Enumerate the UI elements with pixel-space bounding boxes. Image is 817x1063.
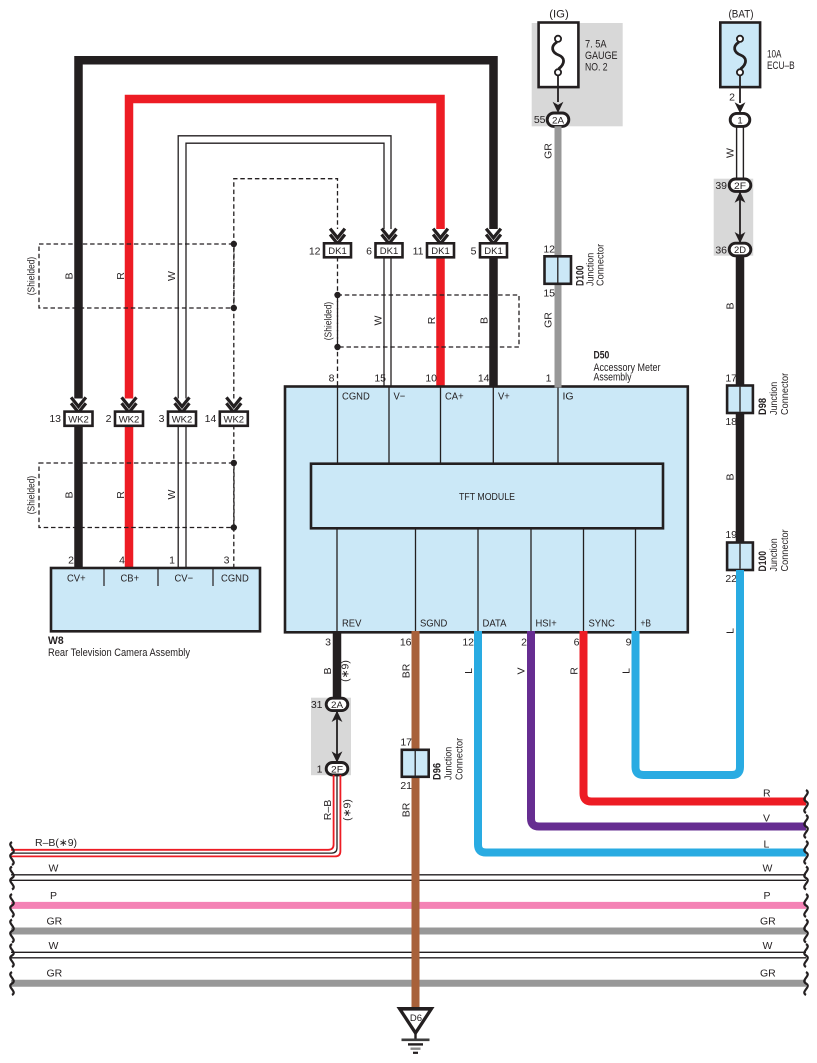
- D50 pin 16: [400, 637, 412, 649]
- squiggle right R: [804, 790, 807, 813]
- svg-text:14: 14: [478, 373, 490, 385]
- svg-text:GR: GR: [543, 143, 555, 159]
- svg-text:4: 4: [119, 555, 125, 567]
- connector 39 2F: [715, 179, 750, 192]
- svg-text:P: P: [50, 890, 57, 902]
- svg-text:1: 1: [169, 555, 175, 567]
- label B REV wire: [322, 667, 334, 674]
- label R-B(*9) horizontal: [35, 837, 77, 849]
- shielded box lower-left: [26, 463, 235, 528]
- label L right: [725, 628, 737, 634]
- chevron arrow into WK2 3: [175, 397, 190, 414]
- svg-text:12: 12: [462, 637, 474, 649]
- label GR upper: [543, 143, 555, 159]
- label W left 1: [49, 863, 59, 875]
- connector WK2 pin 2: [106, 412, 143, 426]
- label P right: [764, 890, 771, 902]
- svg-text:W8: W8: [48, 635, 64, 647]
- connector DK1 pin 6: [366, 243, 402, 257]
- fuse IG 7.5A GAUGE NO.2: [539, 9, 618, 88]
- connector DK1 pin 12: [309, 243, 351, 257]
- wire R from SYNC to right edge: [584, 631, 807, 802]
- label L right: [764, 839, 770, 851]
- svg-text:W: W: [373, 315, 385, 325]
- svg-text:CGND: CGND: [221, 573, 249, 585]
- svg-text:Connector: Connector: [595, 243, 607, 286]
- svg-text:R: R: [426, 316, 438, 324]
- svg-text:W: W: [763, 863, 773, 875]
- svg-text:15: 15: [543, 288, 555, 300]
- svg-text:Rear Television Camera Assembl: Rear Television Camera Assembly: [48, 647, 190, 659]
- wire B from REV to 2A: [333, 631, 342, 698]
- wire GR row 1: [11, 928, 806, 935]
- junction dot: [231, 305, 237, 311]
- W8 pin 1: [169, 555, 175, 567]
- junction dot: [334, 292, 340, 298]
- svg-text:Assembly: Assembly: [594, 371, 632, 383]
- svg-text:(BAT): (BAT): [729, 9, 754, 21]
- label P left: [50, 890, 57, 902]
- arrow down toward 2F: [332, 751, 343, 762]
- shielded box middle: [323, 295, 520, 347]
- svg-text:3: 3: [325, 637, 331, 649]
- wire R below DK1 to D50 CA+: [436, 257, 445, 388]
- svg-text:2D: 2D: [734, 245, 746, 256]
- svg-text:(∗9): (∗9): [340, 660, 352, 682]
- svg-text:BR: BR: [401, 663, 413, 678]
- wire W upper loop (double line): [178, 136, 391, 399]
- wire R upper loop: [129, 99, 441, 399]
- svg-text:6: 6: [366, 246, 372, 258]
- W8 pin 4: [119, 555, 125, 567]
- label GR right 1: [760, 916, 776, 928]
- svg-text:10: 10: [425, 373, 437, 385]
- junction connector D100 right: [725, 529, 791, 585]
- squiggle right GR2: [804, 972, 807, 995]
- chevron arrow into DK1 12: [330, 229, 345, 246]
- svg-text:L: L: [764, 839, 770, 851]
- label W right 1: [763, 863, 773, 875]
- svg-text:REV: REV: [342, 618, 361, 630]
- svg-text:22: 22: [725, 573, 737, 585]
- wire shield drain dashed upper loop: [234, 179, 338, 399]
- chevron arrow into DK1 5: [486, 229, 501, 246]
- svg-text:GAUGE: GAUGE: [585, 50, 618, 62]
- svg-text:+B: +B: [641, 618, 652, 630]
- svg-text:2A: 2A: [552, 115, 565, 126]
- svg-text:(Shielded): (Shielded): [323, 302, 335, 341]
- TFT MODULE box: [311, 464, 663, 529]
- wire B upper loop: [79, 60, 494, 398]
- svg-text:14: 14: [205, 413, 217, 425]
- svg-text:13: 13: [49, 413, 61, 425]
- wire W row 2: [11, 952, 806, 958]
- svg-text:(IG): (IG): [549, 9, 569, 21]
- svg-text:39: 39: [715, 180, 727, 192]
- wire W below DK1 to D50 V-: [384, 257, 391, 388]
- connector 1: [730, 113, 750, 126]
- svg-text:1: 1: [317, 763, 323, 775]
- connector 36 2D: [715, 243, 750, 256]
- squiggle right W2: [804, 944, 807, 967]
- D50 label: [594, 350, 661, 384]
- svg-text:DK1: DK1: [484, 246, 502, 257]
- svg-text:V: V: [763, 813, 770, 825]
- label (*9) REV wire: [340, 660, 352, 682]
- svg-text:Connector: Connector: [779, 529, 791, 572]
- svg-text:V+: V+: [498, 391, 510, 403]
- connector DK1 pin 11: [413, 243, 454, 257]
- svg-text:55: 55: [534, 114, 546, 126]
- wire B from 2D down to D100: [736, 256, 745, 545]
- svg-text:R: R: [763, 788, 771, 800]
- svg-text:W: W: [725, 148, 737, 158]
- squiggle right P: [804, 894, 807, 917]
- label GR right 2: [760, 968, 776, 980]
- svg-text:V: V: [516, 667, 528, 674]
- svg-text:B: B: [64, 491, 76, 498]
- svg-text:HSI+: HSI+: [536, 618, 557, 630]
- svg-text:B: B: [725, 473, 737, 480]
- svg-text:L: L: [621, 668, 633, 674]
- D50 Accessory Meter Assembly box: [285, 387, 688, 633]
- D50 pin 1: [546, 373, 552, 385]
- svg-text:SGND: SGND: [420, 618, 448, 630]
- label BR lower: [401, 802, 413, 817]
- shielded box upper-left: [26, 244, 235, 308]
- gray panel behind 2F/2D connectors: [714, 179, 754, 256]
- label V HSI+: [516, 667, 528, 674]
- svg-text:17: 17: [400, 737, 412, 749]
- svg-text:36: 36: [715, 244, 727, 256]
- svg-text:WK2: WK2: [172, 414, 193, 425]
- svg-text:WK2: WK2: [68, 414, 89, 425]
- svg-text:10A: 10A: [767, 49, 782, 61]
- D50 pin 14: [478, 373, 490, 385]
- chevron arrow into WK2 2: [122, 397, 137, 414]
- svg-text:GR: GR: [760, 968, 776, 980]
- arrow into 2A: [553, 102, 564, 113]
- svg-text:L: L: [463, 668, 475, 674]
- svg-text:(Shielded): (Shielded): [26, 476, 38, 515]
- arrow up toward 2A: [332, 711, 343, 722]
- svg-text:B: B: [725, 302, 737, 309]
- svg-text:W: W: [49, 940, 59, 952]
- squiggle left GR1: [10, 920, 13, 943]
- junction connector D100 on GR wire: [543, 243, 606, 299]
- wire BR crossing rows: [412, 860, 420, 1008]
- svg-text:7. 5A: 7. 5A: [585, 39, 607, 51]
- junction dot: [231, 241, 237, 247]
- svg-text:12: 12: [543, 244, 555, 256]
- svg-text:5: 5: [471, 246, 477, 258]
- label R-B vertical: [322, 800, 334, 820]
- squiggle left P: [10, 894, 13, 917]
- wire BR from SGND to ground: [412, 631, 420, 1008]
- wire W row 1: [11, 875, 806, 881]
- label W left 2: [49, 940, 59, 952]
- label L DATA: [463, 668, 475, 674]
- label W: [725, 148, 737, 158]
- svg-text:11: 11: [413, 246, 424, 258]
- squiggle left R-B: [10, 842, 13, 865]
- svg-text:31: 31: [311, 699, 323, 711]
- svg-text:2F: 2F: [734, 181, 746, 192]
- label V right: [763, 813, 770, 825]
- svg-text:GR: GR: [543, 312, 555, 328]
- connector 1 2F: [317, 763, 348, 776]
- D50 pin 10: [425, 373, 437, 385]
- svg-text:R–B: R–B: [322, 800, 334, 820]
- svg-text:R: R: [115, 272, 127, 280]
- label (*9) vertical: [342, 799, 354, 821]
- fuse BAT 10A ECU-B: [720, 9, 794, 88]
- chevron arrow into DK1 6: [382, 229, 397, 246]
- svg-text:IG: IG: [563, 391, 574, 403]
- svg-text:2: 2: [106, 413, 112, 425]
- svg-text:2: 2: [68, 555, 74, 567]
- label W right 2: [763, 940, 773, 952]
- D50 pin 6: [574, 637, 580, 649]
- squiggle left W1: [10, 867, 13, 890]
- svg-text:DK1: DK1: [431, 246, 449, 257]
- svg-text:16: 16: [400, 637, 412, 649]
- squiggle right L: [804, 841, 807, 864]
- svg-text:TFT MODULE: TFT MODULE: [459, 491, 515, 503]
- svg-text:15: 15: [374, 373, 386, 385]
- svg-text:2: 2: [729, 92, 735, 104]
- svg-text:(Shielded): (Shielded): [26, 257, 38, 296]
- squiggle left GR2: [10, 972, 13, 995]
- connector WK2 pin 14: [205, 412, 248, 426]
- D50 pin 9: [626, 637, 632, 649]
- svg-text:Connector: Connector: [454, 737, 466, 780]
- svg-text:L: L: [725, 628, 737, 634]
- wire L from D100 down and left to +B: [636, 570, 741, 775]
- svg-text:B: B: [64, 272, 76, 279]
- chevron arrow into DK1 11: [433, 229, 448, 246]
- svg-text:12: 12: [309, 246, 321, 258]
- wire V from HSI+ to right edge: [531, 631, 806, 827]
- svg-text:W: W: [166, 489, 178, 499]
- wire R below WK2 to W8: [125, 425, 134, 570]
- svg-text:(∗9): (∗9): [342, 799, 354, 821]
- svg-text:DK1: DK1: [328, 246, 346, 257]
- D50 pin 12: [462, 637, 474, 649]
- gray panel behind 31-2A/1-2F connectors: [311, 698, 351, 776]
- wire GR from 2A to D50 IG: [555, 126, 562, 387]
- connector WK2 pin 13: [49, 412, 92, 426]
- svg-text:R: R: [115, 491, 127, 499]
- wire between 2A and 2F: [336, 711, 338, 763]
- junction dot: [231, 460, 237, 466]
- arrow up toward 2F: [735, 192, 746, 203]
- svg-text:17: 17: [725, 373, 737, 385]
- connector 31 2A: [311, 698, 348, 711]
- svg-text:21: 21: [400, 780, 412, 792]
- svg-text:CGND: CGND: [342, 391, 370, 403]
- label R SYNC: [569, 667, 581, 675]
- svg-text:D50: D50: [594, 350, 610, 362]
- arrow down toward 2D: [735, 232, 746, 243]
- svg-text:WK2: WK2: [224, 414, 245, 425]
- svg-text:2: 2: [521, 637, 527, 649]
- svg-text:GR: GR: [760, 916, 776, 928]
- svg-text:P: P: [764, 890, 771, 902]
- svg-text:GR: GR: [47, 968, 63, 980]
- svg-text:3: 3: [224, 555, 230, 567]
- svg-text:CA+: CA+: [445, 391, 464, 403]
- svg-text:18: 18: [725, 416, 737, 428]
- ground D6: [397, 1007, 435, 1053]
- label B right upper: [725, 302, 737, 309]
- svg-text:NO. 2: NO. 2: [585, 62, 608, 74]
- connector 55 2A: [534, 113, 569, 126]
- svg-text:BR: BR: [401, 802, 413, 817]
- wire R-B from 2F to left edge: [11, 775, 340, 856]
- svg-text:19: 19: [725, 529, 737, 541]
- svg-text:R–B(∗9): R–B(∗9): [35, 837, 77, 849]
- svg-text:GR: GR: [47, 916, 63, 928]
- D50 pin 15: [374, 373, 386, 385]
- svg-text:DATA: DATA: [483, 618, 507, 630]
- svg-text:2A: 2A: [331, 700, 344, 711]
- svg-text:1: 1: [546, 373, 552, 385]
- svg-text:W: W: [763, 940, 773, 952]
- arrow into connector 1: [735, 102, 746, 113]
- wire from BAT fuse pin 2: [729, 75, 740, 103]
- squiggle right V: [804, 815, 807, 838]
- svg-text:8: 8: [329, 373, 335, 385]
- svg-text:W: W: [166, 271, 178, 281]
- wire W below WK2 to W8: [178, 425, 186, 570]
- wire between 2F and 2D: [739, 192, 741, 244]
- squiggle right W1: [804, 867, 807, 890]
- svg-text:B: B: [322, 667, 334, 674]
- junction dot: [334, 344, 340, 350]
- junction connector D96: [400, 737, 465, 793]
- svg-text:WK2: WK2: [119, 414, 140, 425]
- chevron arrow into WK2 13: [71, 397, 86, 414]
- D50 pin 3: [325, 637, 331, 649]
- W8 pin 2: [68, 555, 74, 567]
- svg-text:9: 9: [626, 637, 632, 649]
- label R right: [763, 788, 771, 800]
- W8 pin 3: [224, 555, 230, 567]
- wire B below DK1 to D50 V+: [489, 257, 498, 388]
- wire P row: [11, 902, 806, 909]
- svg-text:6: 6: [574, 637, 580, 649]
- label GR left 1: [47, 916, 63, 928]
- gray panel behind IG fuse: [532, 23, 623, 126]
- svg-text:CV+: CV+: [67, 573, 86, 585]
- svg-text:CV−: CV−: [175, 573, 194, 585]
- wire W from 1 to 2F (double line): [737, 127, 744, 180]
- svg-text:1: 1: [737, 115, 742, 126]
- label B right lower: [725, 473, 737, 480]
- junction connector D98: [725, 372, 791, 428]
- wire dashed below DK1 to D50 CGND: [337, 257, 339, 388]
- label BR upper: [401, 663, 413, 678]
- svg-text:DK1: DK1: [380, 246, 398, 257]
- svg-text:SYNC: SYNC: [589, 618, 616, 630]
- squiggle right GR1: [804, 920, 807, 943]
- svg-text:D6: D6: [410, 1013, 422, 1024]
- D50 pin 2: [521, 637, 527, 649]
- wire GR row 2: [11, 980, 806, 987]
- connector WK2 pin 3: [159, 412, 196, 426]
- connector DK1 pin 5: [471, 243, 507, 257]
- W8 Rear Television Camera Assembly box: [51, 568, 260, 631]
- svg-text:3: 3: [159, 413, 165, 425]
- label GR left 2: [47, 968, 63, 980]
- W8 label: [48, 635, 190, 659]
- squiggle left W2: [10, 944, 13, 967]
- wire dashed below WK2 to W8: [233, 425, 235, 570]
- svg-text:Connector: Connector: [779, 372, 791, 415]
- junction dot: [231, 524, 237, 530]
- svg-text:ECU–B: ECU–B: [767, 60, 795, 72]
- label GR lower: [543, 312, 555, 328]
- svg-text:R: R: [569, 667, 581, 675]
- chevron arrow into WK2 14: [226, 397, 241, 414]
- svg-text:B: B: [479, 317, 491, 324]
- svg-text:CB+: CB+: [121, 573, 140, 585]
- wire L from DATA to right edge: [478, 631, 806, 853]
- svg-text:W: W: [49, 863, 59, 875]
- wire from IG fuse to 2A: [557, 75, 559, 102]
- svg-text:2F: 2F: [331, 764, 343, 775]
- svg-text:V−: V−: [394, 391, 406, 403]
- label L +B: [621, 668, 633, 674]
- D50 pin 8: [329, 373, 335, 385]
- wire B below WK2 to W8: [74, 425, 83, 570]
